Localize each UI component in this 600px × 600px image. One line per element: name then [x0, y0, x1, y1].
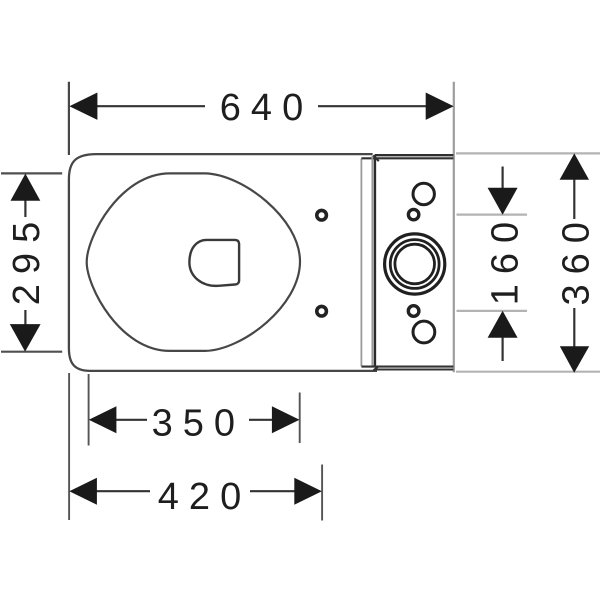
dim 295 line lower segment — [24, 310, 26, 325]
tick 360 top — [456, 152, 600, 154]
dim 420 arrow right — [294, 478, 322, 505]
dim 295 line upper segment — [24, 199, 26, 217]
tick 295 top — [1, 172, 62, 174]
drain outline — [189, 240, 239, 286]
tick 295 bottom — [1, 351, 62, 353]
dim 420 line right segment — [250, 490, 295, 492]
dim 640 line right segment — [318, 105, 427, 107]
tank circle top — [413, 183, 434, 204]
tank top inner line — [361, 157, 453, 159]
dim 350 arrow left — [89, 406, 117, 433]
dim 420 line left segment — [96, 490, 150, 492]
seat hole top — [317, 210, 327, 220]
tank hole top — [408, 209, 418, 219]
extension line 640 right / tank right edge — [453, 82, 455, 373]
svg-text:420: 420 — [158, 476, 251, 518]
tick 160 bottom — [457, 310, 528, 312]
seat hole bottom — [317, 306, 327, 316]
tank circle bottom — [413, 321, 435, 343]
svg-text:360: 360 — [556, 212, 598, 305]
svg-text:295: 295 — [6, 212, 48, 305]
tank top outer line — [375, 154, 454, 156]
dim 360 arrow down — [560, 346, 589, 373]
dim 420 arrow left — [69, 478, 97, 505]
tank bottom line upper — [361, 366, 453, 368]
tank left edge — [374, 155, 377, 367]
dim 350 arrow right — [272, 406, 300, 433]
tick 160 top — [457, 214, 528, 216]
extension line 350 left — [88, 374, 90, 446]
dim 160 arrow up — [488, 311, 518, 338]
extension line 640 left — [68, 82, 70, 155]
svg-text:160: 160 — [484, 212, 526, 305]
dim 640 line left segment — [96, 105, 205, 107]
svg-text:350: 350 — [152, 402, 245, 444]
dim 160 lower tail — [502, 337, 504, 362]
dim 640 arrow left — [69, 93, 97, 120]
dim 160 upper tail — [502, 167, 504, 190]
dim 360 upper tail — [573, 179, 575, 219]
tank chamfer bottom-left — [373, 366, 378, 371]
dim 360 lower tail — [573, 308, 575, 347]
dim 295 arrow up — [11, 174, 41, 201]
dim 350 line left segment — [115, 419, 147, 421]
tank bottom line lower — [376, 368, 453, 370]
tick 360 bottom — [456, 371, 600, 373]
extension line 420 right — [321, 465, 323, 521]
dim 640 arrow right — [426, 93, 454, 120]
extension line 350 right — [299, 393, 301, 444]
tank hole bottom — [408, 306, 419, 317]
svg-text:640: 640 — [220, 87, 313, 129]
dim 350 line right segment — [249, 419, 273, 421]
extension line 420 left — [68, 373, 70, 520]
toilet body outline — [69, 154, 377, 371]
flush valve inner ring — [395, 244, 435, 284]
body-tank joint vertical — [360, 159, 362, 367]
dim 160 arrow down — [488, 188, 518, 215]
tank left inner light line — [371, 156, 373, 367]
tank chamfer top-left — [373, 155, 379, 161]
bowl outline — [87, 173, 300, 351]
dim 295 arrow down — [10, 324, 41, 352]
flush valve middle ring — [390, 240, 439, 289]
flush valve outer ring — [385, 234, 445, 294]
dim 360 arrow up — [560, 153, 589, 179]
